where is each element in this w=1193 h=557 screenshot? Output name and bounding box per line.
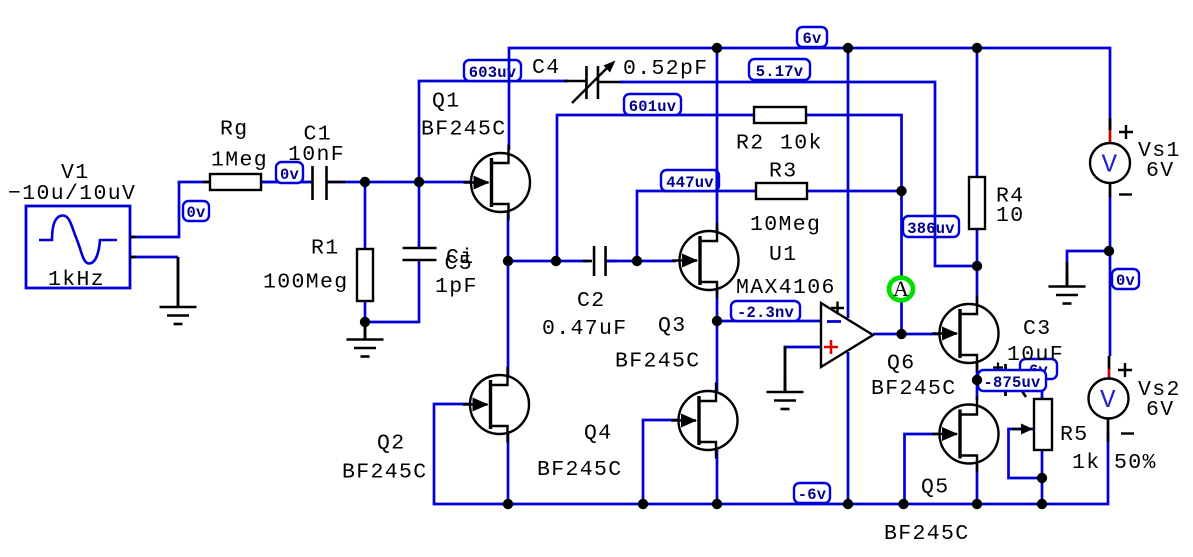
svg-text:6v: 6v [802,30,822,48]
svg-text:C5: C5 [445,252,474,276]
svg-text:R5: R5 [1060,423,1089,447]
svg-text:Q2: Q2 [377,432,406,456]
svg-text:Q6: Q6 [887,352,916,376]
svg-text:10: 10 [996,204,1025,228]
svg-text:0.47uF: 0.47uF [542,317,628,341]
svg-text:5.17v: 5.17v [756,63,804,81]
svg-text:R1: R1 [311,237,340,261]
svg-text:1kHz: 1kHz [48,268,105,292]
svg-text:BF245C: BF245C [342,461,428,485]
svg-text:10k: 10k [780,132,823,156]
svg-text:BF245C: BF245C [871,377,957,401]
svg-text:0v: 0v [186,204,206,222]
svg-text:6V: 6V [1146,398,1175,422]
svg-text:-6v: -6v [798,486,827,504]
svg-text:−10u/10uV: −10u/10uV [8,182,136,206]
svg-text:V: V [1102,150,1119,180]
svg-text:U1: U1 [769,243,798,267]
svg-text:-875uv: -875uv [983,374,1041,392]
svg-text:BF245C: BF245C [615,350,701,374]
svg-text:-2.3nv: -2.3nv [737,304,795,322]
svg-text:10uF: 10uF [1007,343,1064,367]
svg-text:R2: R2 [736,132,765,156]
svg-text:1k: 1k [1072,451,1101,475]
svg-text:V: V [1100,385,1117,415]
svg-text:MAX4106: MAX4106 [736,276,836,300]
svg-text:447uv: 447uv [666,174,714,192]
svg-text:1Meg: 1Meg [211,149,268,173]
svg-text:Q3: Q3 [658,314,687,338]
svg-text:Q5: Q5 [921,476,950,500]
svg-text:386uv: 386uv [907,220,955,238]
svg-text:601uv: 601uv [629,98,677,116]
svg-text:R3: R3 [769,160,798,184]
svg-text:BF245C: BF245C [884,522,970,546]
svg-text:0v: 0v [1116,272,1136,290]
svg-text:10nF: 10nF [288,143,345,167]
svg-text:BF245C: BF245C [421,118,507,142]
svg-text:C3: C3 [1023,317,1052,341]
svg-text:Rg: Rg [220,118,249,142]
svg-text:0.52pF: 0.52pF [623,57,709,81]
svg-text:BF245C: BF245C [537,458,623,482]
svg-text:1pF: 1pF [435,275,478,299]
svg-text:50%: 50% [1114,451,1157,475]
svg-text:C2: C2 [577,289,606,313]
svg-text:A: A [893,276,909,301]
svg-text:10Meg: 10Meg [750,213,821,237]
svg-text:C4: C4 [532,56,561,80]
svg-text:100Meg: 100Meg [263,271,349,295]
svg-text:0v: 0v [280,166,300,184]
svg-text:6V: 6V [1146,159,1175,183]
svg-text:Q4: Q4 [584,422,613,446]
svg-text:Q1: Q1 [432,90,461,114]
